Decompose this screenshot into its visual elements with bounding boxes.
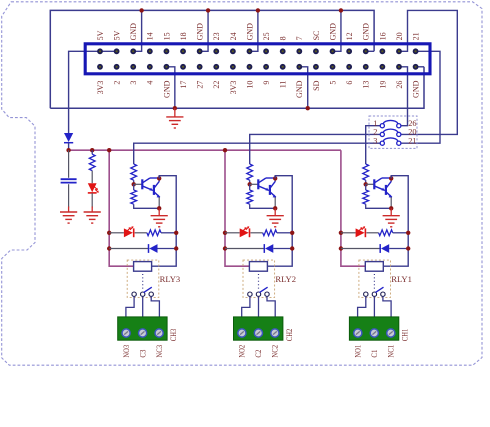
terminal screw 2 CH1 <box>370 329 378 337</box>
wire GND stub bottom col 5 <box>166 67 174 108</box>
pin 4 (top) <box>114 48 120 54</box>
diode flyback ch1 <box>381 244 389 253</box>
pin 14 (top) <box>197 48 203 54</box>
svg-text:10: 10 <box>245 81 254 89</box>
wire base to transistor ch3 <box>134 183 142 185</box>
wire 5V rail <box>69 149 341 151</box>
wire GND stub bottom col 20 <box>416 66 424 68</box>
svg-text:NO1: NO1 <box>354 345 363 358</box>
wire rail to C1 <box>68 150 70 178</box>
svg-text:11: 11 <box>279 81 288 89</box>
svg-text:8: 8 <box>279 36 288 40</box>
svg-text:24: 24 <box>229 32 238 40</box>
node collector junction ch3 <box>157 176 161 180</box>
wire jumper row3 to Q3 base chain <box>134 143 381 164</box>
wire emitter down ch3 <box>158 197 160 208</box>
node LED row right ch2 <box>290 231 294 235</box>
terminal screw 3 CH1 <box>387 329 395 337</box>
wire GND lower bus <box>50 67 424 108</box>
pin 20 (top) <box>247 48 253 54</box>
ground emitter ch2 <box>274 208 276 215</box>
pin 37 (bottom) <box>396 64 402 70</box>
relay link RLY3 <box>142 274 144 290</box>
pin 19 (bottom) <box>247 64 253 70</box>
pin 35 (bottom) <box>379 64 385 70</box>
relay RLY1 <box>359 260 391 297</box>
pin 34 (top) <box>363 48 369 54</box>
node GND junction col 10 <box>256 8 260 12</box>
wire resistor to collector ch3 <box>161 232 176 234</box>
wire GND top bus <box>50 10 374 108</box>
wire NO2 <box>242 296 250 317</box>
relay coil RLY3 <box>134 262 152 272</box>
resistor R1 power LED <box>91 150 93 154</box>
relay switch arm RLY3 <box>144 287 152 292</box>
LED status ch1 <box>356 228 365 237</box>
ground LED1 <box>91 207 93 213</box>
pin 39 (bottom) <box>413 64 419 70</box>
pin 16 (top) <box>213 48 219 54</box>
pin 2 (top) <box>97 48 103 54</box>
ground emitter ch3 <box>158 208 160 215</box>
pin 38 (top) <box>396 48 402 54</box>
connector J40 GPIO header <box>85 44 430 74</box>
wire LED row left ch2 <box>225 232 240 234</box>
node collector junction ch2 <box>273 176 277 180</box>
svg-text:NC2: NC2 <box>271 345 280 358</box>
wire C3 <box>142 296 144 317</box>
node GND junction bottom col 5 <box>173 106 177 110</box>
pin 27 (bottom) <box>313 64 319 70</box>
node 5V rail left junction <box>66 148 70 152</box>
transistor Q3b <box>153 185 155 195</box>
wire 5V feed ch3 <box>109 150 133 266</box>
node LED row left ch1 <box>339 231 343 235</box>
terminal screw 3 CH2 <box>271 329 279 337</box>
svg-text:SD: SD <box>312 80 321 90</box>
wire collector to relay ch1 <box>383 176 408 267</box>
wire diode row right ch1 <box>389 248 408 250</box>
pin 36 (top) <box>379 48 385 54</box>
wire lower resistor to emitter ch1 <box>366 204 392 208</box>
svg-text:1: 1 <box>373 119 377 128</box>
transistor Q2a <box>257 179 259 189</box>
svg-text:C2: C2 <box>254 350 263 358</box>
pin 9 (bottom) <box>164 64 170 70</box>
svg-text:GND: GND <box>328 23 337 41</box>
node diode row left ch3 <box>107 246 111 250</box>
svg-text:GND: GND <box>295 80 304 98</box>
pin 33 (bottom) <box>363 64 369 70</box>
diode D1 5V input <box>64 133 73 142</box>
wire C1 <box>373 296 375 317</box>
relay contacts RLY2 <box>248 292 252 296</box>
svg-text:19: 19 <box>378 81 387 89</box>
wire 5V from pins 1,2 <box>69 51 117 133</box>
svg-text:SC: SC <box>312 31 321 41</box>
capacitor C1 <box>61 178 77 180</box>
resistor base lower ch3 <box>133 184 135 190</box>
wire GND stub bottom col 13 <box>299 67 307 108</box>
wire NO3 <box>126 296 134 317</box>
svg-text:2: 2 <box>113 81 122 85</box>
wire 5V feed ch2 <box>225 150 249 266</box>
node diode row right ch3 <box>174 246 178 250</box>
svg-text:26: 26 <box>408 119 416 128</box>
svg-text:NO2: NO2 <box>238 345 247 358</box>
svg-text:3: 3 <box>373 137 377 146</box>
terminal screw 1 CH1 <box>354 329 362 337</box>
svg-text:26: 26 <box>395 81 404 89</box>
wire lower resistor to emitter ch2 <box>250 204 276 208</box>
wire GPIO21 pin to jumper row 3 <box>401 51 440 143</box>
relay RLY3 <box>127 260 159 297</box>
node emitter junction ch1 <box>389 206 393 210</box>
resistor LED series ch3 <box>147 230 161 236</box>
wire C2 <box>258 296 260 317</box>
wire LED1 to ground <box>91 193 93 208</box>
wire NC3 <box>151 296 159 317</box>
wire collector to relay ch3 <box>152 176 177 267</box>
svg-text:21: 21 <box>411 32 420 40</box>
transistor Q1b <box>385 185 387 195</box>
svg-text:GND: GND <box>245 23 254 41</box>
wire lower resistor to emitter ch3 <box>134 204 160 208</box>
svg-text:22: 22 <box>212 81 221 89</box>
svg-text:GND: GND <box>411 80 420 98</box>
pin 13 (bottom) <box>197 64 203 70</box>
wire diode row left ch3 <box>109 248 149 250</box>
resistor LED series ch1 <box>379 230 393 236</box>
svg-text:NC1: NC1 <box>387 345 396 358</box>
pin 30 (top) <box>330 48 336 54</box>
node LED row right ch3 <box>174 231 178 235</box>
pin 18 (top) <box>230 48 236 54</box>
wire LED row left ch3 <box>109 232 124 234</box>
svg-text:5V: 5V <box>96 30 105 40</box>
svg-text:NC3: NC3 <box>155 345 164 358</box>
resistor base lower ch1 <box>365 184 367 190</box>
resistor LED series ch2 <box>263 230 277 236</box>
LED status ch2 <box>240 228 249 237</box>
wire GND stub pin col 7 <box>200 10 208 51</box>
wire GND stub pin col 17 <box>366 50 374 52</box>
pin 12 (top) <box>180 48 186 54</box>
svg-text:RLY1: RLY1 <box>391 274 412 284</box>
svg-text:2: 2 <box>373 128 377 137</box>
wire diode row left ch1 <box>341 248 381 250</box>
pin 28 (top) <box>313 48 319 54</box>
wire NC1 <box>383 296 391 317</box>
LED LED1 power indicator <box>88 183 97 192</box>
svg-text:20: 20 <box>408 128 416 137</box>
pin 21 (bottom) <box>263 64 269 70</box>
svg-text:C1: C1 <box>370 350 379 358</box>
relay contacts RLY1 <box>364 292 368 296</box>
pin 11 (bottom) <box>180 64 186 70</box>
node LED row left ch3 <box>107 231 111 235</box>
relay link RLY2 <box>258 274 260 290</box>
svg-text:20: 20 <box>395 32 404 40</box>
node rail junction ch2 <box>223 148 227 152</box>
relay link RLY1 <box>373 274 375 290</box>
pin 23 (bottom) <box>280 64 286 70</box>
connector CH3 terminal block <box>118 317 167 340</box>
ground emitter ch1 <box>390 208 392 215</box>
wire LED to resistor ch3 <box>135 232 147 234</box>
svg-text:21: 21 <box>408 137 416 146</box>
wire jumper row1 to Q1 base chain <box>366 126 381 164</box>
node emitter junction ch3 <box>157 206 161 210</box>
connector CH1 terminal block <box>349 317 398 340</box>
wire collector to relay ch2 <box>267 176 292 267</box>
wire GPIO20 pin to jumper row 2 <box>399 10 457 134</box>
relay contacts RLY3 <box>132 292 136 296</box>
wire diode row left ch2 <box>225 248 265 250</box>
resistor base upper ch2 <box>247 164 253 180</box>
terminal screw 2 CH2 <box>254 329 262 337</box>
pin 10 (top) <box>164 48 170 54</box>
pin 3 (bottom) <box>114 64 120 70</box>
wire GND stub pin col 15 <box>333 10 341 51</box>
pin 24 (top) <box>280 48 286 54</box>
wire emitter down ch2 <box>274 197 276 208</box>
wire diode row right ch2 <box>273 248 292 250</box>
terminal screw 2 CH3 <box>139 329 147 337</box>
jumper cap row 2 <box>383 129 398 132</box>
connector J1 jumper block <box>369 116 417 148</box>
wire LED to resistor ch1 <box>366 232 378 234</box>
svg-text:18: 18 <box>179 32 188 40</box>
relay switch arm RLY1 <box>375 287 383 292</box>
svg-text:CH2: CH2 <box>285 329 294 342</box>
svg-text:3V3: 3V3 <box>96 81 105 95</box>
wire D1 to rail <box>68 143 70 150</box>
transistor Q1a <box>373 179 375 189</box>
svg-text:RLY3: RLY3 <box>160 274 181 284</box>
svg-text:RLY2: RLY2 <box>275 274 296 284</box>
wire resistor to collector ch1 <box>393 232 409 234</box>
svg-text:GND: GND <box>196 23 205 41</box>
svg-text:GND: GND <box>129 23 138 41</box>
svg-text:CH1: CH1 <box>401 329 410 342</box>
node LED row right ch1 <box>406 231 410 235</box>
pin 29 (bottom) <box>330 64 336 70</box>
relay coil RLY2 <box>249 262 267 272</box>
connector CH2 terminal block <box>234 317 283 340</box>
svg-text:16: 16 <box>378 32 387 40</box>
svg-text:9: 9 <box>262 81 271 85</box>
terminal screw 1 CH2 <box>238 329 246 337</box>
pin 17 (bottom) <box>230 64 236 70</box>
svg-text:13: 13 <box>362 81 371 89</box>
svg-text:23: 23 <box>212 32 221 40</box>
svg-text:5V: 5V <box>113 30 122 40</box>
node rail junction ch3 <box>107 148 111 152</box>
svg-text:3V3: 3V3 <box>229 81 238 95</box>
wire NC2 <box>267 296 275 317</box>
pin 40 (top) <box>413 48 419 54</box>
pin 31 (bottom) <box>346 64 352 70</box>
jumper row 2 pins <box>380 132 384 136</box>
wire resistor to collector ch2 <box>277 232 292 234</box>
wire LED row left ch1 <box>341 232 356 234</box>
svg-text:15: 15 <box>162 32 171 40</box>
svg-text:3: 3 <box>129 81 138 85</box>
pin 22 (top) <box>263 48 269 54</box>
jumper row 3 pins <box>380 141 384 145</box>
node diode row left ch2 <box>223 246 227 250</box>
pin 15 (bottom) <box>213 64 219 70</box>
pin 26 (top) <box>296 48 302 54</box>
svg-text:25: 25 <box>262 32 271 40</box>
transistor Q2b <box>269 185 271 195</box>
wire emitter down ch1 <box>390 197 392 208</box>
svg-text:CH3: CH3 <box>169 329 178 342</box>
svg-text:C3: C3 <box>138 350 147 358</box>
pin 6 (top) <box>130 48 136 54</box>
node base junction ch3 <box>133 180 135 184</box>
relay coil RLY1 <box>365 262 383 272</box>
node base junction ch2 <box>249 180 251 184</box>
node GND junction col 15 <box>339 8 343 12</box>
svg-text:4: 4 <box>146 81 155 85</box>
resistor base upper ch3 <box>131 164 137 180</box>
wire base to transistor ch1 <box>366 183 374 185</box>
wire GND stub pin col 10 <box>249 10 257 51</box>
LED status ch3 <box>124 228 133 237</box>
pin 32 (top) <box>346 48 352 54</box>
svg-text:17: 17 <box>179 81 188 89</box>
pin 1 (bottom) <box>97 64 103 70</box>
svg-text:6: 6 <box>345 81 354 85</box>
node GND junction bottom col 13 <box>306 106 310 110</box>
svg-text:14: 14 <box>146 32 155 40</box>
terminal screw 3 CH3 <box>155 329 163 337</box>
node GND junction col 7 <box>206 8 210 12</box>
resistor base lower ch2 <box>249 184 251 190</box>
svg-text:27: 27 <box>196 81 205 89</box>
wire NO1 <box>358 296 366 317</box>
wire diode row right ch3 <box>158 248 177 250</box>
node LED row left ch2 <box>223 231 227 235</box>
node GND junction col 3 <box>139 8 143 12</box>
jumper cap row 3 <box>383 138 398 141</box>
jumper cap row 1 <box>383 120 398 123</box>
wire LED to resistor ch2 <box>251 232 263 234</box>
wire jumper row2 to Q2 base chain <box>250 134 381 164</box>
relay RLY2 <box>243 260 275 297</box>
ground below header <box>174 108 176 117</box>
relay switch arm RLY2 <box>259 287 267 292</box>
svg-text:GND: GND <box>362 23 371 41</box>
wire C1 to ground <box>68 184 70 207</box>
node rail junction R1 <box>90 148 94 152</box>
ground C1 <box>68 207 70 213</box>
pin 5 (bottom) <box>130 64 136 70</box>
node emitter junction ch2 <box>273 206 277 210</box>
node diode row right ch2 <box>290 246 294 250</box>
svg-text:12: 12 <box>345 32 354 40</box>
svg-text:NO3: NO3 <box>122 345 131 358</box>
svg-text:5: 5 <box>328 81 337 85</box>
node base junction ch1 <box>365 180 367 184</box>
pin 25 (bottom) <box>296 64 302 70</box>
svg-text:GND: GND <box>162 80 171 98</box>
node diode row left ch1 <box>339 246 343 250</box>
wire GPIO26 pin to jumper row 1 <box>399 67 408 126</box>
pin 8 (top) <box>147 48 153 54</box>
svg-text:7: 7 <box>295 36 304 40</box>
pin 7 (bottom) <box>147 64 153 70</box>
diode flyback ch3 <box>149 244 157 253</box>
resistor base upper ch1 <box>363 164 369 180</box>
wire 5V feed ch1 <box>341 150 365 266</box>
node diode row right ch1 <box>406 246 410 250</box>
wire GND stub pin col 3 <box>133 10 141 51</box>
wire base to transistor ch2 <box>250 183 258 185</box>
jumper row 1 pins <box>380 124 384 128</box>
node collector junction ch1 <box>389 176 393 180</box>
terminal screw 1 CH3 <box>122 329 130 337</box>
diode flyback ch2 <box>265 244 273 253</box>
wire R1 to LED1 <box>91 171 93 184</box>
transistor Q3a <box>141 179 143 189</box>
